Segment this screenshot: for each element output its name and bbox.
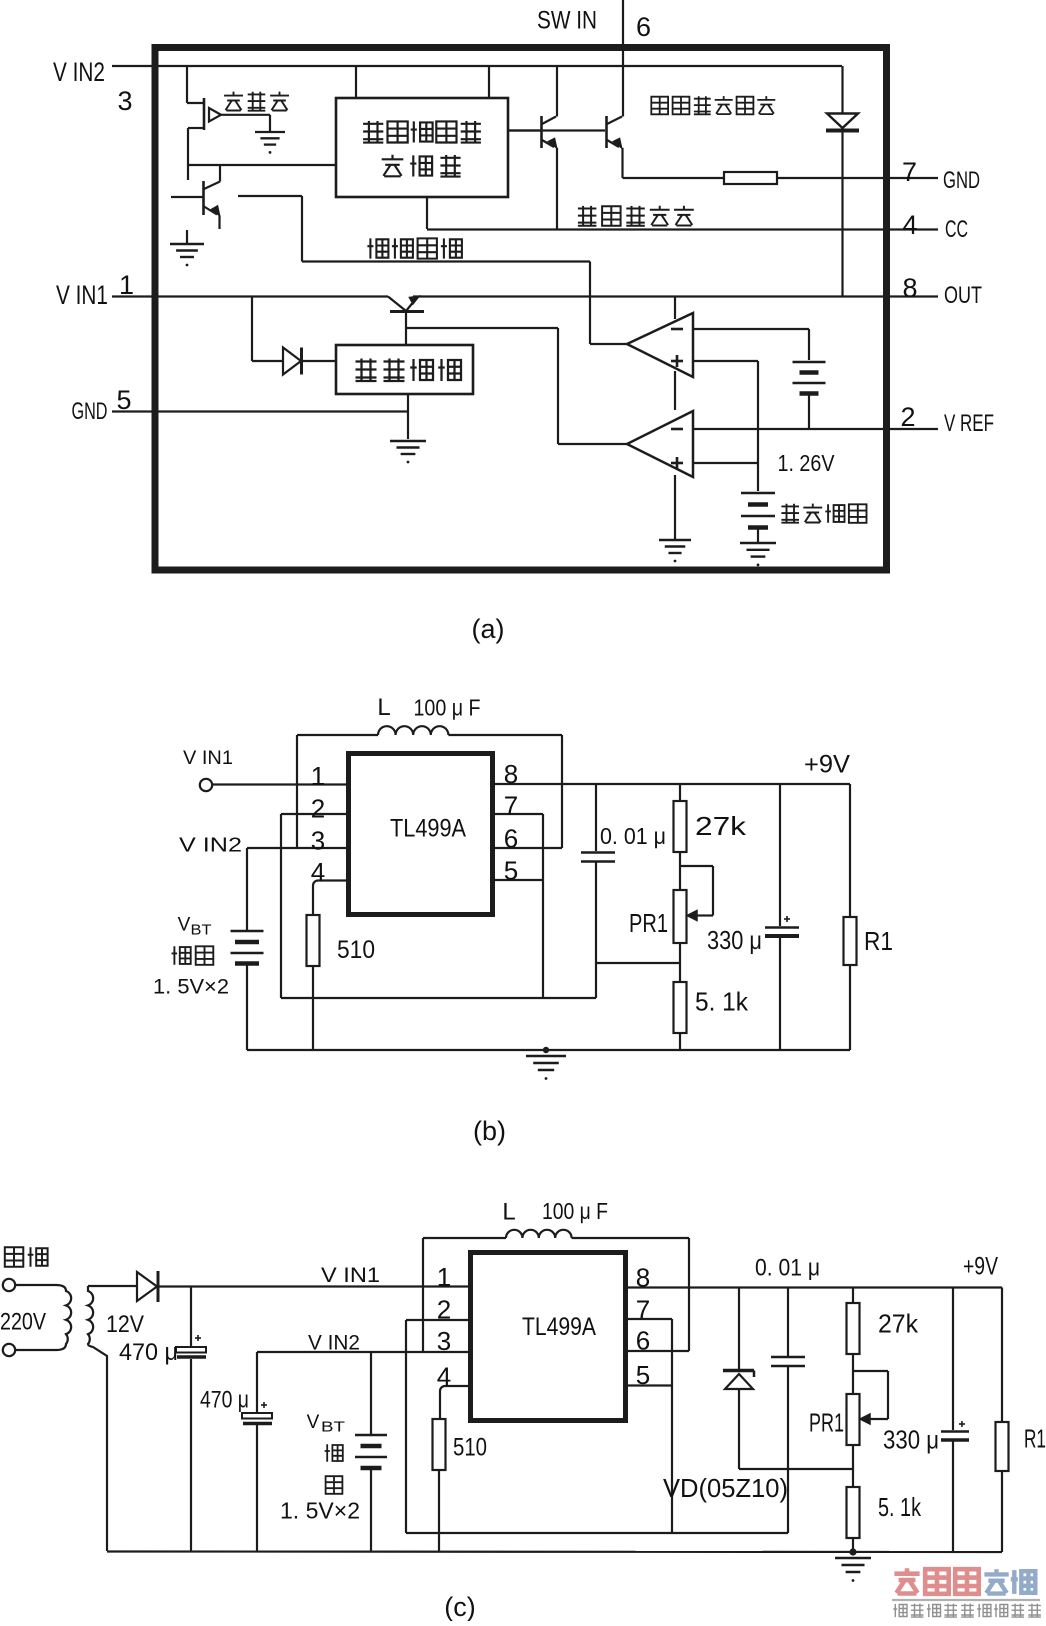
svg-text:V: V <box>307 1412 320 1433</box>
svg-text:5. 1k: 5. 1k <box>878 1492 922 1522</box>
svg-text:3: 3 <box>117 86 132 116</box>
svg-text:1. 26V: 1. 26V <box>778 450 836 476</box>
svg-text:(a): (a) <box>472 614 505 644</box>
svg-text:R1: R1 <box>864 926 893 956</box>
svg-text:OUT: OUT <box>944 282 982 309</box>
svg-text:2: 2 <box>900 402 915 432</box>
svg-text:SW IN: SW IN <box>537 7 597 35</box>
svg-text:V IN2: V IN2 <box>308 1332 360 1355</box>
svg-text:PR1: PR1 <box>809 1408 844 1438</box>
svg-text:TL499A: TL499A <box>390 815 466 843</box>
svg-text:V IN1: V IN1 <box>321 1264 380 1287</box>
svg-text:BT: BT <box>191 922 212 939</box>
svg-text:1: 1 <box>437 1262 451 1292</box>
svg-text:1. 5V×2: 1. 5V×2 <box>280 1498 360 1524</box>
svg-text:(c): (c) <box>444 1592 475 1621</box>
svg-text:470 μ: 470 μ <box>119 1339 178 1366</box>
svg-text:VD(05Z10): VD(05Z10) <box>663 1473 788 1503</box>
svg-text:+9V: +9V <box>804 751 850 779</box>
svg-text:1. 5V×2: 1. 5V×2 <box>153 976 229 999</box>
svg-text:5. 1k: 5. 1k <box>695 987 749 1017</box>
svg-text:L: L <box>502 1199 515 1226</box>
svg-text:R1: R1 <box>1024 1424 1046 1454</box>
svg-text:7: 7 <box>902 157 917 187</box>
svg-text:12V: 12V <box>106 1311 144 1338</box>
svg-text:4: 4 <box>437 1362 451 1392</box>
svg-text:1: 1 <box>119 270 134 300</box>
svg-text:100 μ F: 100 μ F <box>542 1198 608 1224</box>
svg-text:V IN1: V IN1 <box>56 280 108 310</box>
svg-text:GND: GND <box>72 398 108 425</box>
svg-text:V IN2: V IN2 <box>179 835 242 857</box>
svg-text:330 μ: 330 μ <box>707 925 762 955</box>
svg-text:3: 3 <box>437 1326 451 1356</box>
svg-text:510: 510 <box>453 1434 487 1462</box>
svg-text:GND: GND <box>943 167 980 194</box>
svg-text:L: L <box>377 694 390 721</box>
svg-text:CC: CC <box>945 216 968 243</box>
svg-text:BT: BT <box>321 1419 345 1436</box>
svg-text:V IN1: V IN1 <box>183 748 233 769</box>
svg-text:6: 6 <box>636 12 651 42</box>
svg-text:8: 8 <box>504 759 518 789</box>
svg-text:6: 6 <box>504 824 518 854</box>
svg-text:V REF: V REF <box>944 410 994 437</box>
svg-text:27k: 27k <box>695 811 747 841</box>
svg-text:+9V: +9V <box>963 1253 998 1281</box>
svg-text:5: 5 <box>504 856 518 886</box>
svg-text:TL499A: TL499A <box>522 1313 596 1341</box>
svg-text:470 μ: 470 μ <box>200 1387 249 1414</box>
svg-text:V: V <box>178 915 191 936</box>
svg-text:510: 510 <box>337 936 375 964</box>
svg-text:7: 7 <box>504 791 518 821</box>
svg-text:4: 4 <box>311 857 325 887</box>
svg-text:100 μ F: 100 μ F <box>414 695 481 721</box>
svg-text:0. 01 μ: 0. 01 μ <box>600 823 666 849</box>
svg-text:4: 4 <box>902 210 917 240</box>
svg-text:27k: 27k <box>878 1309 919 1339</box>
svg-text:220V: 220V <box>0 1309 46 1336</box>
svg-text:V IN2: V IN2 <box>53 57 105 87</box>
svg-text:1: 1 <box>311 761 325 791</box>
svg-text:2: 2 <box>311 794 325 824</box>
svg-text:0. 01 μ: 0. 01 μ <box>755 1255 820 1282</box>
svg-text:5: 5 <box>116 385 131 415</box>
svg-text:2: 2 <box>437 1295 451 1325</box>
svg-text:3: 3 <box>311 826 325 856</box>
svg-text:330 μ: 330 μ <box>883 1425 939 1455</box>
svg-text:PR1: PR1 <box>629 908 668 938</box>
svg-text:8: 8 <box>902 273 917 303</box>
svg-text:(b): (b) <box>473 1116 506 1146</box>
